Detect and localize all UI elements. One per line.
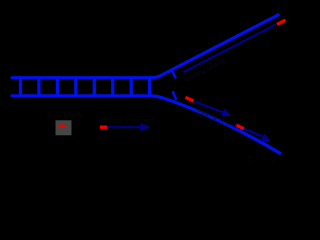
leading strand (new DNA, navy): [184, 24, 277, 72]
legend Okazaki sample: navy arrow: [108, 123, 151, 132]
parental DNA bottom rail: [11, 96, 162, 98]
Okazaki fragment 1 (navy arrow): [195, 102, 232, 117]
legend Okazaki sample: red primer: [100, 125, 107, 128]
svg-text:Okazaki fragment: Okazaki fragment: [99, 118, 154, 125]
Okazaki fragment 2 RNA primer: [236, 125, 244, 129]
legend RNA primer sample: [59, 125, 67, 128]
unpaired base stubs on bottom template: [173, 91, 177, 100]
svg-text:RNA primer: RNA primer: [47, 113, 84, 120]
parental DNA top rail: [11, 14, 280, 77]
svg-text:5': 5': [248, 156, 253, 163]
leading strand RNA primer (red): [277, 20, 286, 24]
legend swatch box (grey): [56, 120, 72, 135]
svg-text:5': 5': [4, 88, 9, 95]
Okazaki fragment 2 (navy arrow): [244, 129, 271, 142]
svg-text:3': 3': [4, 71, 9, 78]
unpaired base stubs on top template: [172, 70, 176, 78]
svg-text:5': 5': [277, 7, 282, 14]
faint black labels (invisible on black bg, kept for fidelity): [4, 7, 283, 165]
base-pair rungs: [21, 78, 150, 96]
svg-text:3': 3': [271, 158, 276, 165]
Okazaki fragment 1 RNA primer: [186, 97, 194, 101]
lagging strand template (bottom branch): [160, 97, 281, 154]
